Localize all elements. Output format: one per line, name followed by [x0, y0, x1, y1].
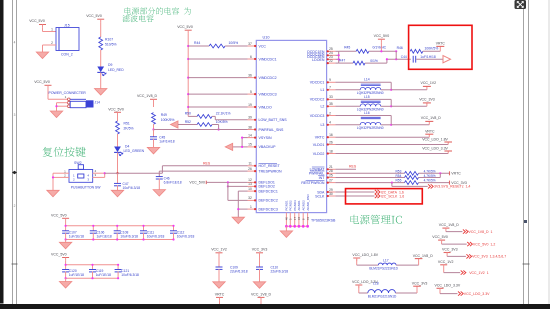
- svg-text:25: 25: [329, 173, 333, 177]
- junction: [152, 128, 154, 130]
- wire: [100, 73, 102, 89]
- pin 6 (VINDCDC1): [248, 55, 277, 62]
- pin 13 (DEFLDO2): [248, 182, 275, 189]
- wire: [159, 171, 247, 177]
- resistor R55: [396, 179, 436, 185]
- svg-text:RES: RES: [203, 161, 211, 165]
- annotation reset button: [43, 147, 86, 157]
- resistor R50: [185, 112, 231, 119]
- off-page connector 3V3.SYS_RESETz: [428, 184, 470, 188]
- wire: [260, 301, 262, 304]
- svg-text:CON_2: CON_2: [61, 53, 73, 57]
- svg-text:37: 37: [248, 42, 252, 46]
- svg-text:DEFDCDC3: DEFDCDC3: [259, 207, 278, 211]
- svg-text:10: 10: [248, 187, 252, 191]
- svg-text:32: 32: [248, 196, 252, 200]
- svg-text:R46: R46: [397, 46, 403, 50]
- capacitor C111: [140, 225, 164, 241]
- inductor L16 LQH32PN2R2NN0: [335, 111, 441, 130]
- wire: [225, 45, 247, 47]
- svg-text:2: 2: [329, 111, 331, 115]
- svg-text:PWRFAIL_SNS: PWRFAIL_SNS: [259, 128, 284, 132]
- svg-text:3V3.SYS_RESETz 1,4: 3V3.SYS_RESETz 1,4: [434, 185, 470, 189]
- svg-text:VCC_5V0: VCC_5V0: [34, 80, 50, 84]
- svg-text:BLM21PG221SN1D: BLM21PG221SN1D: [369, 267, 398, 271]
- wire: [117, 185, 119, 190]
- svg-text:POWER_CONNECTER: POWER_CONNECTER: [49, 91, 87, 95]
- junction: [52, 176, 54, 178]
- svg-text:J15: J15: [64, 24, 70, 28]
- power VCC_1V8_D (L17): [413, 254, 434, 259]
- wire: [357, 258, 379, 265]
- svg-text:VCC_LDO_1.8V: VCC_LDO_1.8V: [352, 253, 378, 257]
- off-page connector I2C_SCLK: [375, 194, 404, 198]
- capacitor C45: [150, 135, 175, 143]
- capacitor C120: [62, 264, 84, 280]
- junction: [104, 172, 106, 174]
- label POWER_CONNECTER: [49, 91, 87, 95]
- svg-text:INT: INT: [319, 176, 326, 180]
- wire: [65, 278, 67, 281]
- power VCC_5V0 (cap bank 2): [51, 253, 69, 265]
- junction: [338, 54, 340, 60]
- svg-text:L17: L17: [383, 258, 389, 262]
- svg-text:VCC_1V8_D: VCC_1V8_D: [251, 292, 272, 296]
- svg-text:VRTC: VRTC: [436, 42, 446, 46]
- wire: [259, 269, 261, 282]
- svg-text:10K/5%: 10K/5%: [216, 120, 228, 124]
- wire: [359, 285, 368, 293]
- svg-text:TRESPWRON: TRESPWRON: [259, 169, 282, 173]
- wire: [117, 134, 119, 147]
- red highlight box I2C: [346, 189, 423, 204]
- power flag VCC_5V0: [432, 235, 495, 246]
- capacitor C108: [114, 225, 138, 241]
- wire net RES: [105, 166, 248, 173]
- power VCC_5V0 (R107): [86, 14, 104, 23]
- svg-text:VCC_3V3 1,3,4,5,6,7: VCC_3V3 1,3,4,5,6,7: [472, 255, 506, 259]
- svg-text:22uF/6.3/18: 22uF/6.3/18: [271, 270, 289, 274]
- bottom ground pins PGND1 PGND2 PGND3 AGND1 AGND2 AGND_PAD: [285, 193, 310, 226]
- frame line left inner: [16, 0, 18, 304]
- annotation capacitor note line1: [125, 7, 191, 14]
- svg-text:VRTC: VRTC: [315, 136, 325, 140]
- svg-text:PUSHBUTTON SW: PUSHBUTTON SW: [71, 186, 102, 190]
- svg-text:2K/5%: 2K/5%: [124, 127, 134, 131]
- svg-text:SW2: SW2: [74, 161, 82, 165]
- power VCC_3V3 (C110): [252, 248, 268, 256]
- pin 28 (PWRFAIL): [309, 169, 336, 176]
- svg-text:LQH32PN2R2NN0: LQH32PN2R2NN0: [357, 126, 384, 130]
- wire: [419, 182, 450, 184]
- pin 35 (L2): [320, 102, 335, 109]
- pin 32 (DEFDCDC2): [248, 196, 278, 203]
- wire: [395, 51, 397, 59]
- wire: [153, 130, 155, 137]
- pin 37 (VCC): [248, 42, 267, 49]
- svg-text:VCC_5V0 1,2: VCC_5V0 1,2: [473, 242, 495, 246]
- wire VCC_5V0 bus: [187, 33, 189, 116]
- svg-text:R44: R44: [194, 41, 200, 45]
- svg-text:19: 19: [248, 103, 252, 107]
- svg-text:R50: R50: [185, 112, 191, 116]
- power flag VCC_LDO_3.3V: [435, 284, 491, 296]
- wire: [238, 191, 247, 217]
- svg-text:VCC_5V0: VCC_5V0: [51, 253, 67, 257]
- zone tick left lower: [12, 263, 18, 265]
- label RES (right): [349, 165, 357, 169]
- svg-text:15: 15: [248, 143, 252, 147]
- ground (IC): [280, 231, 292, 238]
- svg-text:TPS65023RSB: TPS65023RSB: [311, 218, 336, 222]
- ground (J15): [36, 52, 48, 59]
- inductor L17 BLM21PG221SN1D: [369, 258, 398, 270]
- ground (C110): [253, 282, 265, 289]
- power VCC_3V3 (R55): [450, 181, 467, 185]
- pin 39 (LOW_BATT_SNS): [248, 116, 288, 123]
- svg-text:HOT_RESET: HOT_RESET: [259, 164, 281, 168]
- wire net VLDO1: [335, 142, 448, 145]
- zone digit 3 left: [14, 113, 16, 117]
- svg-text:R52: R52: [185, 120, 191, 124]
- resistor R49: [152, 113, 175, 125]
- pin 26 (TRESPWRON): [248, 167, 282, 174]
- pin 9 (VDCDC1): [310, 78, 336, 85]
- svg-text:LOW_BATT_SNS: LOW_BATT_SNS: [259, 118, 288, 122]
- svg-text:VDCDC2: VDCDC2: [310, 98, 325, 102]
- power VCC_1V8_D (R49): [137, 94, 158, 102]
- capacitor C109: [216, 266, 248, 274]
- red highlight box VRTC: [409, 25, 472, 69]
- annotation capacitor note line2: [122, 15, 153, 22]
- svg-text:I2C_SCLK 1,6: I2C_SCLK 1,6: [381, 194, 404, 198]
- wire: [380, 42, 382, 51]
- wire bus: [66, 265, 119, 278]
- off-page arrow (R52): [171, 121, 179, 128]
- pin 29 (SDA): [317, 188, 335, 195]
- capacitor C121: [115, 264, 139, 280]
- svg-text:16: 16: [329, 133, 333, 137]
- svg-text:VCC_1V8_D: VCC_1V8_D: [439, 223, 460, 227]
- svg-text:VCC_5V0: VCC_5V0: [177, 25, 193, 29]
- svg-text:BLM21PG221SN1D: BLM21PG221SN1D: [368, 295, 397, 299]
- svg-text:VCC_1V2 1: VCC_1V2 1: [469, 271, 489, 275]
- inductor L14 LQH32PN2R2NN0: [335, 78, 436, 95]
- wire: [117, 173, 119, 183]
- svg-text:VCC_LDO_1.8V: VCC_LDO_1.8V: [422, 138, 448, 142]
- svg-text:5: 5: [250, 90, 252, 94]
- off-page arrow (VBACKUP): [225, 143, 233, 150]
- junction: [237, 208, 239, 210]
- wire: [206, 181, 247, 183]
- svg-text:L14: L14: [364, 78, 370, 82]
- svg-text:4.7K/5%: 4.7K/5%: [424, 179, 436, 183]
- svg-text:VRTC: VRTC: [425, 129, 435, 133]
- zone digit 4 left: [14, 41, 16, 45]
- wire: [339, 62, 353, 64]
- power VRTC (R46): [436, 42, 446, 47]
- svg-text:26: 26: [329, 140, 333, 144]
- pin 27 (RESTPWRON): [301, 178, 335, 185]
- svg-text:VCC_1V8_D: VCC_1V8_D: [421, 116, 442, 120]
- pin 25 (DCDC1EN): [307, 47, 335, 54]
- svg-text:VCC_LDO_3.3V: VCC_LDO_3.3V: [435, 284, 461, 288]
- svg-text:10uF/6.3/18: 10uF/6.3/18: [177, 234, 195, 238]
- svg-text:41: 41: [306, 217, 310, 221]
- power VCC_3V3 (L18): [412, 281, 428, 286]
- svg-text:VINDCDC1: VINDCDC1: [259, 57, 277, 61]
- wire: [219, 301, 221, 304]
- wire: [218, 256, 220, 267]
- svg-text:L16: L16: [364, 111, 370, 115]
- svg-text:VDCDC3: VDCDC3: [310, 114, 325, 118]
- ground (D9): [95, 89, 107, 96]
- svg-text:6: 6: [250, 55, 252, 59]
- svg-text:39: 39: [248, 116, 252, 120]
- junction: [187, 45, 189, 108]
- pin 15 (VBACKUP): [248, 143, 277, 150]
- wire: [93, 173, 105, 177]
- connector J14: [65, 95, 100, 108]
- wire: [53, 173, 69, 190]
- power VCC_LDO_1.8V (L17): [352, 253, 378, 261]
- svg-text:4.7K/5%: 4.7K/5%: [424, 169, 436, 173]
- svg-text:C44: C44: [401, 55, 407, 59]
- resistor R45: [344, 45, 387, 53]
- svg-text:L15: L15: [364, 95, 370, 99]
- svg-text:VCC: VCC: [259, 44, 267, 48]
- svg-text:VCC_1V2: VCC_1V2: [421, 81, 437, 85]
- annotation power management IC: [350, 215, 401, 225]
- svg-text:VRTC: VRTC: [215, 292, 225, 296]
- svg-text:D9: D9: [108, 63, 112, 67]
- svg-text:L3: L3: [320, 123, 324, 127]
- svg-text:VCC_1V8_D: VCC_1V8_D: [413, 254, 434, 258]
- wire: [188, 58, 247, 60]
- power flag VCC_1V8_D: [439, 223, 493, 234]
- wire: [153, 103, 155, 108]
- wire: [100, 22, 102, 37]
- zone tick right lower: [523, 263, 530, 265]
- ground (C47): [111, 190, 123, 197]
- power VCC_1V8_D (bottom): [251, 292, 272, 300]
- svg-text:R49: R49: [161, 113, 167, 117]
- svg-text:18: 18: [329, 149, 333, 153]
- pin 4 (L3): [320, 121, 335, 128]
- junction: [241, 137, 243, 148]
- capacitor C119: [89, 264, 111, 280]
- svg-text:10uF/6.3/18: 10uF/6.3/18: [123, 186, 141, 190]
- wire: [335, 182, 404, 184]
- svg-text:VINDCDC3: VINDCDC3: [259, 92, 277, 96]
- pin 24 (DCDC2EN): [307, 51, 335, 57]
- wire: [369, 50, 396, 52]
- wire net 3V3.SYS_RESETz: [392, 183, 428, 187]
- junction: [439, 172, 441, 174]
- svg-text:R55: R55: [396, 179, 402, 183]
- capacitor C107: [62, 225, 84, 241]
- capacitor C110: [256, 266, 288, 274]
- wire: [158, 179, 160, 190]
- svg-text:VCC_1V8_D: VCC_1V8_D: [137, 94, 158, 98]
- pin 26 (VLDO1): [313, 140, 336, 147]
- ground (C45): [147, 147, 159, 154]
- svg-text:R45: R45: [344, 45, 350, 49]
- svg-text:VBACKUP: VBACKUP: [259, 145, 277, 149]
- svg-text:RESTPWRON: RESTPWRON: [301, 181, 324, 185]
- junction: [391, 182, 393, 184]
- LED D9 LED_RED: [97, 63, 124, 76]
- sheet border bottom black bar: [0, 304, 550, 309]
- pin 30 (SCLK): [315, 192, 335, 199]
- power VCC_5V0 (R45): [374, 34, 390, 42]
- svg-text:33: 33: [329, 95, 333, 99]
- wire: [423, 46, 441, 51]
- pin 21 (LOWBAT): [310, 165, 336, 172]
- svg-text:3: 3: [14, 113, 16, 117]
- power VCC_5V0 (cap bank 1): [51, 213, 69, 226]
- frame line right edge faint: [548, 0, 550, 304]
- junction: [227, 181, 229, 187]
- svg-text:100K/5%: 100K/5%: [425, 47, 439, 51]
- svg-text:VCC_1V8_D 1: VCC_1V8_D 1: [469, 230, 493, 234]
- svg-text:4: 4: [329, 121, 331, 125]
- IC U10 TPS65023RSB body: [256, 36, 336, 223]
- wire: [188, 106, 247, 108]
- pin 12 (DEFLDO1): [248, 178, 275, 185]
- svg-text:11: 11: [248, 162, 252, 166]
- wire bottom ground bus: [285, 225, 309, 231]
- junction: [386, 58, 398, 60]
- wire: [212, 125, 219, 130]
- sheet border left black bar: [0, 0, 4, 304]
- inductor L18 BLM21PG221SN1D: [368, 281, 397, 298]
- wire: [178, 124, 197, 126]
- wire net I2C_SCLK: [335, 195, 374, 197]
- wire bus: [66, 226, 174, 240]
- svg-text:DEFLDO2: DEFLDO2: [259, 185, 275, 189]
- svg-text:1: 1: [250, 205, 252, 209]
- svg-text:U10: U10: [263, 36, 270, 40]
- move icon top right: [515, 0, 527, 9]
- svg-text:VLDO2: VLDO2: [313, 152, 325, 156]
- ground (cap bank 2): [59, 282, 71, 289]
- wire: [57, 103, 68, 111]
- svg-text:L1: L1: [320, 88, 324, 92]
- svg-text:10uF/6.3/18: 10uF/6.3/18: [121, 273, 139, 277]
- pin 10 (DEFDCDC1): [248, 187, 278, 194]
- label RES: [203, 161, 211, 165]
- svg-text:35: 35: [329, 102, 333, 106]
- svg-text:VINLDO: VINLDO: [259, 105, 272, 109]
- wire EN bus: [335, 51, 338, 63]
- svg-text:1uF/1E/18: 1uF/1E/18: [69, 234, 84, 238]
- svg-text:36: 36: [248, 73, 252, 77]
- svg-text:9: 9: [329, 78, 331, 82]
- wire: [396, 259, 419, 266]
- svg-text:VSYSIN: VSYSIN: [259, 136, 272, 140]
- wire: [153, 124, 155, 129]
- junction: [55, 105, 57, 107]
- svg-text:1: 1: [51, 28, 53, 32]
- junction: [218, 128, 220, 130]
- svg-text:D4: D4: [125, 145, 129, 149]
- pin 19 (VINLDO): [248, 103, 272, 110]
- frame line right inner: [523, 0, 525, 304]
- pin 2 (VDCDC3): [310, 111, 336, 118]
- pin 5 (VINDCDC3): [248, 90, 277, 97]
- pin 25 (INT): [318, 173, 335, 180]
- svg-text:R107: R107: [105, 38, 113, 42]
- svg-text:VCC_3V3: VCC_3V3: [252, 248, 268, 252]
- power VCC_5V0 (J14): [34, 80, 51, 88]
- power VCC_1V2 (C109): [211, 248, 227, 256]
- svg-text:VCC_1V2: VCC_1V2: [438, 260, 454, 264]
- svg-text:R53: R53: [396, 169, 402, 173]
- wire: [212, 116, 248, 119]
- svg-text:14: 14: [248, 133, 252, 137]
- wire: [188, 77, 247, 79]
- wire: [228, 182, 248, 200]
- junction node RES: [116, 172, 118, 174]
- svg-text:10uF/6.3/18: 10uF/6.3/18: [120, 234, 138, 238]
- ground (SW2): [47, 190, 59, 197]
- junction: [380, 50, 397, 52]
- power flag VCC_3V3: [442, 248, 506, 259]
- frame line right outer: [528, 0, 530, 304]
- pin 11 (HOT_RESET): [248, 162, 281, 169]
- svg-text:VCC_3V3: VCC_3V3: [412, 281, 428, 285]
- LED D4 LED_GREEN: [114, 145, 144, 156]
- svg-text:0/1%: 0/1%: [370, 59, 378, 63]
- zone marker diamond left: [12, 171, 17, 174]
- wire: [218, 269, 220, 282]
- capacitor C44: [401, 55, 436, 63]
- svg-text:26: 26: [248, 167, 252, 171]
- power VCC_LDO_3.3V (L18): [352, 280, 378, 288]
- svg-text:30: 30: [329, 192, 333, 196]
- power VCC_5V0 (IC bus): [177, 25, 193, 34]
- power VCC_5V0 (R51): [108, 107, 124, 115]
- ground (J14): [50, 111, 62, 118]
- svg-text:VCC_5V0: VCC_5V0: [108, 107, 124, 111]
- wire: [365, 59, 411, 63]
- svg-text:22: 22: [329, 59, 333, 63]
- svg-text:RES: RES: [349, 165, 357, 169]
- wire net VRTC: [335, 134, 429, 137]
- pin 38 (PWRFAIL_SNS): [248, 125, 284, 132]
- svg-text:VCC_5V0: VCC_5V0: [51, 213, 67, 217]
- resistor R46: [397, 46, 439, 53]
- resistor R107: [99, 37, 117, 50]
- wire: [43, 45, 57, 52]
- wire: [117, 153, 119, 174]
- svg-text:VCC_LDO_3.3V: VCC_LDO_3.3V: [422, 147, 448, 151]
- svg-text:1uF/1E/18: 1uF/1E/18: [97, 234, 112, 238]
- wire: [100, 50, 102, 67]
- wire: [188, 45, 209, 47]
- off-page connector I2C_DATA: [375, 190, 404, 194]
- wire net PWRFAIL_SNS: [154, 129, 248, 131]
- svg-text:VCC_5V0: VCC_5V0: [86, 14, 102, 18]
- svg-text:22.1K/1%: 22.1K/1%: [216, 112, 231, 116]
- svg-text:6.8nF/1E/18: 6.8nF/1E/18: [164, 180, 182, 184]
- power flag VCC_1V2: [438, 260, 489, 275]
- wire: [153, 139, 155, 148]
- resistor R44: [194, 41, 238, 48]
- svg-text:1uF/1E/18: 1uF/1E/18: [96, 273, 111, 277]
- power VRTC (pin16): [425, 129, 435, 134]
